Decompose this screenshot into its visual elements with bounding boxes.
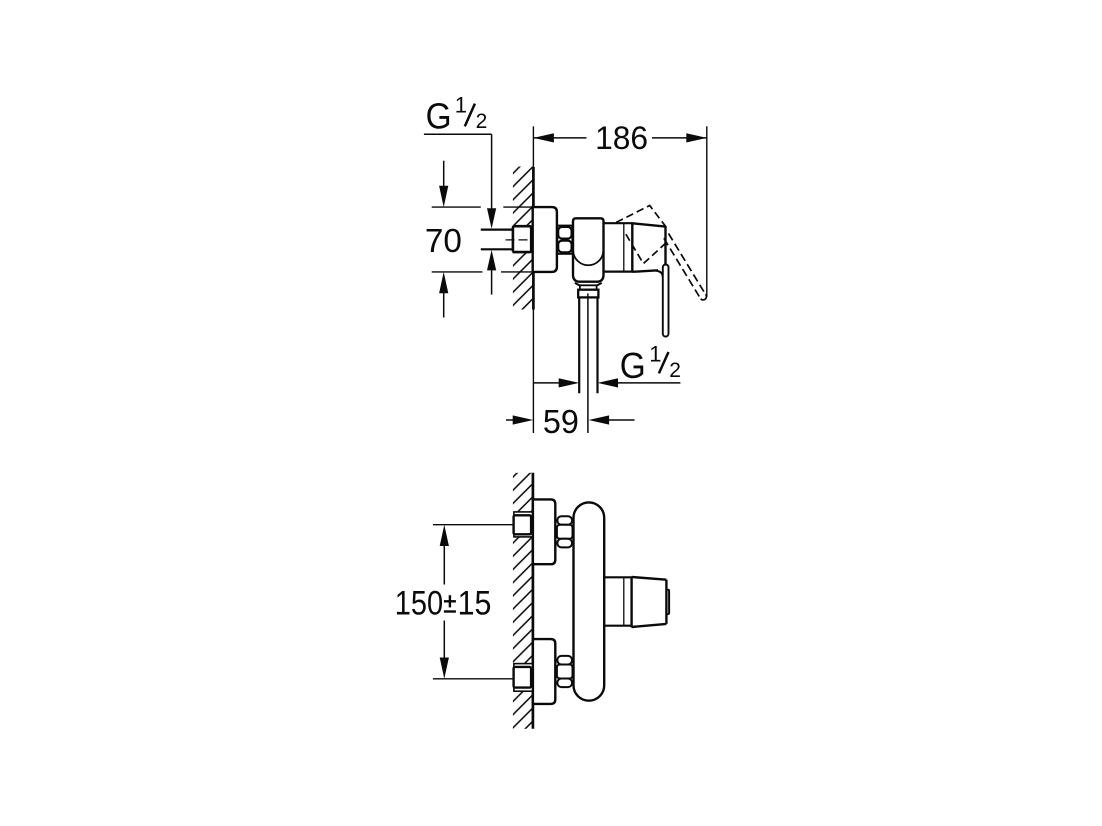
extension line 150 bottom [433, 678, 514, 680]
body capsule [574, 502, 605, 700]
handle cap cone bottom view [632, 577, 667, 628]
supply pipe behind wall [481, 230, 514, 250]
hose centerline / 59 extension [587, 297, 589, 433]
cartridge sleeve [603, 223, 632, 271]
svg-text:59: 59 [543, 404, 579, 441]
label G 1/2 at hose [620, 342, 681, 386]
lower connection square [514, 667, 532, 688]
extension line 150 top [433, 524, 514, 526]
lower flange [533, 639, 555, 704]
pipe centerline dashed [506, 239, 532, 241]
svg-text:2: 2 [476, 110, 488, 133]
svg-text:G: G [426, 96, 452, 137]
handle cap cone [632, 222, 665, 277]
lever knob end bottom view [666, 590, 669, 614]
upper connection square [514, 515, 532, 534]
extension line 70 top [432, 206, 533, 208]
svg-text:186: 186 [595, 120, 648, 156]
svg-text:G: G [620, 345, 646, 386]
wall hatching upper band [513, 167, 533, 227]
outlet collar [580, 285, 597, 289]
label G 1/2 top left [426, 93, 488, 137]
outlet neck [575, 283, 602, 286]
cartridge sleeve bottom view [604, 577, 631, 625]
leader lines G 1/2 at hose [533, 378, 680, 387]
dashed cap inner edge rotated [626, 234, 668, 263]
wall line thin lower (59 extension) [532, 310, 534, 434]
svg-text:1: 1 [649, 342, 661, 367]
dimension line 186 [533, 133, 706, 142]
extension line right of 186 [706, 126, 708, 296]
lever handle (closed position) [663, 265, 669, 337]
wall line thin upper (186 extension) [532, 126, 534, 168]
dimension line 150 with arrows [440, 525, 449, 679]
svg-text:2: 2 [669, 359, 681, 382]
lower connection pipe ring [514, 664, 533, 692]
nipple square behind wall [513, 226, 531, 252]
svg-text:150: 150 [395, 585, 443, 623]
body inner arc [573, 251, 603, 265]
union hex nut [557, 226, 572, 254]
dashed lever (open position) [664, 234, 707, 300]
valve body [573, 218, 604, 281]
70 upper arrow [439, 161, 448, 207]
svg-text:1: 1 [455, 93, 467, 118]
wall hatching lower band [513, 252, 533, 309]
dashed cap outline rotated (open position) [616, 206, 666, 228]
svg-text:70: 70 [425, 223, 462, 260]
upper flange [533, 499, 555, 564]
leader for G 1/2 top left [424, 134, 496, 294]
wall line thick [532, 167, 535, 310]
upper union nut [557, 516, 573, 547]
extension line 70 bottom [432, 271, 533, 273]
70 lower arrow [439, 272, 448, 318]
wall hatching bands bottom view [513, 473, 533, 512]
dimension text 150±15 [395, 585, 492, 623]
wall flange (escutcheon) [533, 207, 557, 272]
shower hose [579, 297, 597, 393]
hose nut [578, 290, 598, 298]
lower union nut [557, 656, 573, 687]
upper connection pipe ring [514, 512, 533, 537]
svg-text:15: 15 [458, 585, 492, 623]
wall line bottom view [532, 473, 535, 729]
dimension 59 [506, 415, 635, 424]
